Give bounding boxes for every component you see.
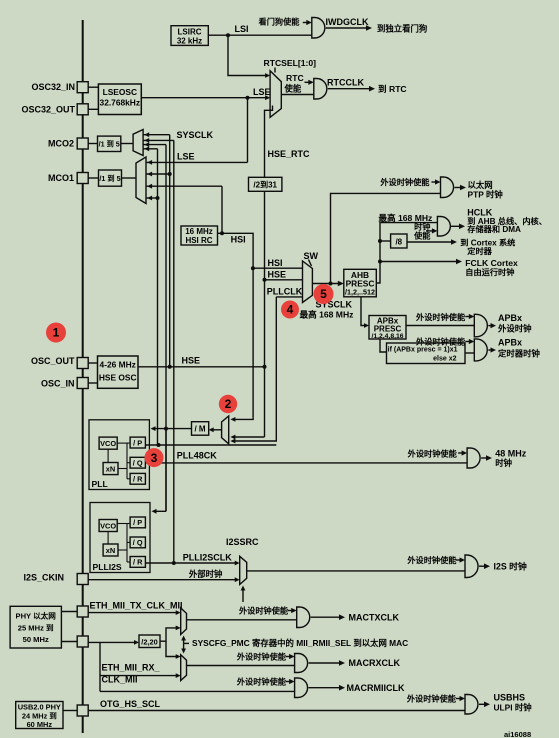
svg-text:APBx: APBx — [498, 338, 522, 348]
svg-text:FCLK Cortex: FCLK Cortex — [465, 258, 518, 268]
svg-text:xN: xN — [106, 546, 115, 555]
svg-text:/ P: / P — [133, 518, 142, 527]
svg-text:外设时钟使能: 外设时钟使能 — [406, 694, 457, 704]
svg-text:LSIRC: LSIRC — [178, 27, 202, 36]
svg-text:使能: 使能 — [284, 84, 302, 94]
svg-text:到独立看门狗: 到独立看门狗 — [377, 24, 427, 34]
svg-text:HSE: HSE — [182, 356, 201, 366]
svg-text:LSI: LSI — [235, 24, 249, 34]
svg-text:定时器: 定时器 — [466, 246, 492, 256]
svg-text:USBHS: USBHS — [494, 693, 526, 703]
svg-text:MACTXCLK: MACTXCLK — [349, 613, 400, 623]
svg-text:/ R: / R — [133, 558, 143, 567]
svg-text:16 MHz: 16 MHz — [185, 227, 213, 236]
svg-text:自由运行时钟: 自由运行时钟 — [465, 267, 514, 277]
svg-text:MCO2: MCO2 — [48, 139, 74, 149]
svg-text:外设时钟: 外设时钟 — [497, 324, 532, 334]
svg-text:LSE: LSE — [253, 87, 271, 97]
svg-text:外设时钟使能: 外设时钟使能 — [415, 312, 466, 322]
svg-text:到 RTC: 到 RTC — [378, 83, 407, 94]
svg-text:USB2.0 PHY: USB2.0 PHY — [18, 703, 61, 712]
svg-text:/ Q: / Q — [133, 538, 143, 547]
svg-text:/1 到 5: /1 到 5 — [99, 140, 120, 149]
svg-text:看门狗使能: 看门狗使能 — [258, 17, 301, 27]
svg-text:外设时钟使能: 外设时钟使能 — [415, 336, 466, 346]
svg-text:OSC32_IN: OSC32_IN — [31, 82, 75, 92]
svg-text:HSI: HSI — [268, 258, 283, 268]
svg-text:时钟: 时钟 — [414, 221, 430, 231]
svg-text:/1,2,..512: /1,2,..512 — [345, 288, 375, 297]
svg-text:OSC32_OUT: OSC32_OUT — [21, 104, 75, 114]
svg-text:SW: SW — [304, 251, 319, 261]
svg-text:HSE: HSE — [268, 269, 287, 279]
svg-text:HSI RC: HSI RC — [185, 236, 212, 245]
svg-text:1: 1 — [53, 326, 60, 340]
svg-text:3: 3 — [151, 451, 158, 465]
svg-text:60 MHz: 60 MHz — [27, 720, 53, 729]
svg-text:IWDGCLK: IWDGCLK — [326, 17, 369, 27]
svg-text:/ M: / M — [194, 425, 205, 434]
svg-text:PLL48CK: PLL48CK — [177, 450, 218, 460]
svg-text:32.768kHz: 32.768kHz — [100, 98, 141, 108]
svg-text:5: 5 — [320, 287, 327, 301]
svg-text:/2,20: /2,20 — [141, 638, 157, 647]
svg-text:使能: 使能 — [413, 230, 431, 240]
svg-text:PLL: PLL — [92, 479, 108, 489]
svg-text:RTC: RTC — [286, 73, 304, 83]
svg-text:ETH_MII_RX_: ETH_MII_RX_ — [102, 663, 161, 673]
svg-text:外设时钟使能: 外设时钟使能 — [379, 177, 430, 187]
svg-text:最高 168 MHz: 最高 168 MHz — [300, 308, 354, 319]
svg-text:OSC_OUT: OSC_OUT — [31, 356, 75, 366]
svg-text:存储器和 DMA: 存储器和 DMA — [467, 224, 521, 234]
svg-text:PLLI2SCLK: PLLI2SCLK — [183, 553, 233, 563]
svg-text:PHY 以太网: PHY 以太网 — [16, 610, 57, 620]
svg-text:/1 到 5: /1 到 5 — [99, 174, 120, 183]
svg-text:PTP 时钟: PTP 时钟 — [468, 190, 504, 200]
svg-text:I2SSRC: I2SSRC — [226, 537, 259, 547]
svg-text:if (APBx presc = 1)x1: if (APBx presc = 1)x1 — [388, 347, 458, 354]
svg-text:外设时钟使能: 外设时钟使能 — [407, 448, 458, 458]
svg-text:/ Q: / Q — [133, 459, 143, 468]
svg-text:PLLI2S: PLLI2S — [93, 562, 122, 572]
svg-text:ULPI 时钟: ULPI 时钟 — [494, 703, 533, 713]
svg-text:I2S 时钟: I2S 时钟 — [494, 561, 527, 572]
svg-text:25 MHz 到: 25 MHz 到 — [18, 622, 54, 632]
svg-text:LSE: LSE — [177, 152, 195, 162]
svg-text:HSI: HSI — [231, 235, 246, 245]
svg-text:最高 168 MHz: 最高 168 MHz — [378, 212, 432, 223]
svg-text:外设时钟使能: 外设时钟使能 — [236, 676, 287, 686]
svg-text:定时器时钟: 定时器时钟 — [497, 349, 540, 359]
svg-text:外部时钟: 外部时钟 — [188, 569, 223, 579]
svg-text:SYSCLK: SYSCLK — [177, 130, 214, 140]
svg-text:50 MHz: 50 MHz — [23, 635, 49, 644]
svg-text:MACRXCLK: MACRXCLK — [349, 658, 401, 668]
svg-text:OSC_IN: OSC_IN — [41, 378, 75, 388]
svg-text:APBx: APBx — [498, 313, 522, 323]
svg-text:以太网: 以太网 — [468, 180, 493, 190]
svg-text:VCO: VCO — [100, 522, 116, 531]
svg-text:2: 2 — [225, 397, 232, 411]
svg-text:HSE_RTC: HSE_RTC — [268, 149, 311, 159]
svg-text:else x2: else x2 — [433, 356, 456, 363]
svg-text:外设时钟使能: 外设时钟使能 — [236, 651, 287, 661]
svg-text:MCO1: MCO1 — [48, 173, 74, 183]
svg-text:/2到31: /2到31 — [253, 180, 277, 190]
svg-text:/ R: / R — [133, 475, 143, 484]
svg-text:HSE OSC: HSE OSC — [99, 373, 137, 383]
svg-text:I2S_CKIN: I2S_CKIN — [23, 573, 64, 583]
svg-text:48 MHz: 48 MHz — [495, 449, 527, 459]
svg-text:OTG_HS_SCL: OTG_HS_SCL — [100, 699, 161, 709]
svg-text:4-26 MHz: 4-26 MHz — [100, 360, 136, 370]
svg-text:/ P: / P — [133, 438, 142, 447]
svg-text:ETH_MII_TX_CLK_MII: ETH_MII_TX_CLK_MII — [90, 601, 183, 611]
svg-text:LSEOSC: LSEOSC — [103, 87, 137, 97]
svg-text:时钟: 时钟 — [495, 458, 512, 468]
svg-text:32 kHz: 32 kHz — [177, 36, 202, 45]
svg-text:xN: xN — [106, 465, 115, 474]
svg-text:ai16088: ai16088 — [504, 730, 531, 738]
svg-text:外设时钟使能: 外设时钟使能 — [406, 555, 457, 565]
svg-text:/1,2,4,8,16: /1,2,4,8,16 — [371, 333, 403, 340]
svg-text:4: 4 — [287, 303, 294, 317]
svg-text:RTCSEL[1:0]: RTCSEL[1:0] — [264, 58, 317, 68]
svg-text:SYSCFG_PMC 寄存器中的 MII_RMII_SEL: SYSCFG_PMC 寄存器中的 MII_RMII_SEL 到以太网 MAC — [192, 638, 408, 648]
svg-text:外设时钟使能: 外设时钟使能 — [238, 605, 289, 615]
svg-text:MACRMIICLK: MACRMIICLK — [347, 683, 405, 693]
svg-text:VCO: VCO — [100, 439, 116, 448]
svg-text:/8: /8 — [395, 237, 402, 246]
svg-text:RTCCLK: RTCCLK — [327, 77, 364, 87]
svg-text:HCLK: HCLK — [467, 207, 492, 217]
svg-text:PLLCLK: PLLCLK — [267, 287, 303, 297]
